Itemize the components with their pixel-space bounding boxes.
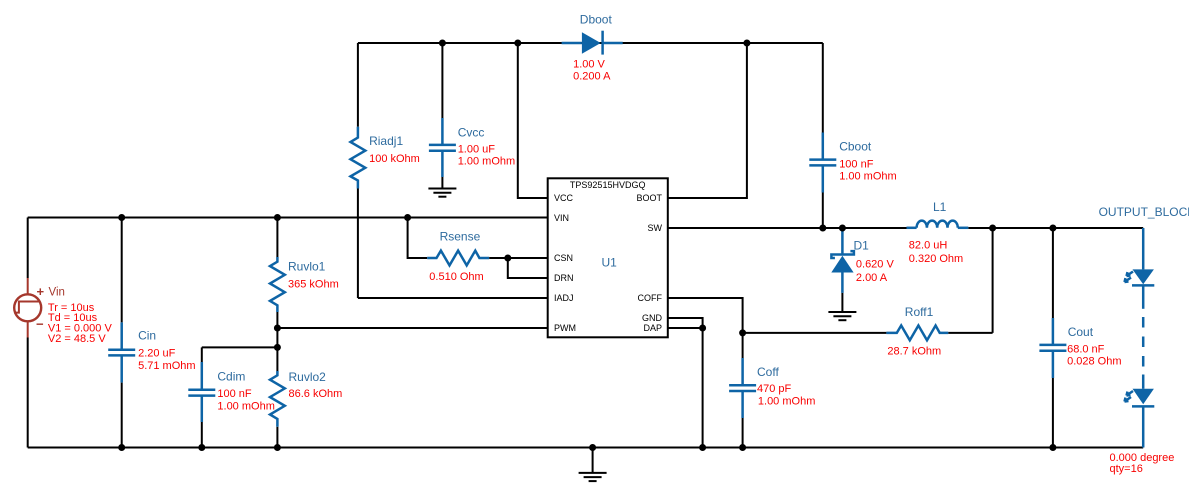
svg-text:U1: U1	[602, 256, 618, 270]
voltage source Vin	[14, 278, 65, 338]
resistor Riadj1	[351, 43, 366, 298]
svg-text:qty=16: qty=16	[1110, 463, 1143, 475]
ground (main)	[579, 448, 607, 482]
svg-text:Roff1: Roff1	[905, 305, 934, 319]
ground (D1)	[828, 312, 856, 320]
svg-text:GND: GND	[642, 313, 663, 323]
node: SW / Roff1 riser	[989, 225, 996, 232]
svg-text:82.0 uH: 82.0 uH	[909, 240, 948, 252]
svg-text:5.71 mOhm: 5.71 mOhm	[138, 360, 195, 372]
wire: VCC branch	[518, 43, 548, 198]
node: ground rail / Coff	[739, 444, 746, 451]
ground (Cvcc)	[428, 189, 456, 197]
resistor Ruvlo1	[270, 218, 285, 372]
node: COFF / Coff / Roff1	[739, 329, 746, 336]
node: top rail / BOOT	[743, 40, 750, 47]
value Cin	[138, 347, 195, 372]
svg-text:0.510 Ohm: 0.510 Ohm	[429, 271, 483, 283]
wire: Cdim top branch y347.4	[202, 346, 278, 348]
wire: CSN line	[489, 257, 548, 259]
svg-text:PWM: PWM	[554, 323, 576, 333]
value Cboot	[839, 158, 896, 182]
node: PWM / Ruvlo divider	[274, 325, 281, 332]
svg-text:0.200 A: 0.200 A	[573, 71, 611, 83]
svg-text:OUTPUT_BLOCK: OUTPUT_BLOCK	[1099, 205, 1189, 219]
svg-text:100 nF: 100 nF	[839, 158, 874, 170]
svg-text:100 nF: 100 nF	[217, 388, 252, 400]
wire: Rsense drop from VIN rail	[408, 218, 428, 259]
svg-text:100 kOhm: 100 kOhm	[369, 153, 420, 165]
svg-text:BOOT: BOOT	[636, 193, 662, 203]
op-amp U1 (TPS92515HVDGQ)	[548, 178, 668, 337]
value Cdim	[217, 388, 274, 413]
svg-text:Ruvlo2: Ruvlo2	[289, 370, 327, 384]
diode Dboot	[562, 31, 623, 55]
svg-text:V2 = 48.5 V: V2 = 48.5 V	[48, 333, 106, 345]
node: top rail / Cvcc	[439, 40, 446, 47]
svg-text:365 kOhm: 365 kOhm	[288, 278, 339, 290]
diode D1 (schottky)	[831, 228, 854, 312]
svg-text:2.20 uF: 2.20 uF	[138, 347, 176, 359]
node: top rail / VCC	[514, 40, 521, 47]
svg-text:Dboot: Dboot	[580, 12, 613, 26]
svg-text:Cout: Cout	[1068, 325, 1094, 339]
wire: BOOT branch	[668, 43, 747, 198]
svg-text:Coff: Coff	[757, 365, 779, 379]
node: Cdim tap	[274, 344, 281, 351]
svg-text:+: +	[37, 284, 45, 299]
svg-text:1.00 uF: 1.00 uF	[458, 144, 496, 156]
svg-text:Vin: Vin	[49, 286, 65, 298]
wire: GND/DAP down to ground rail	[702, 328, 704, 448]
svg-text:Cboot: Cboot	[839, 139, 872, 153]
svg-text:−: −	[36, 316, 44, 331]
svg-text:Cdim: Cdim	[217, 369, 245, 383]
node: ground rail / Cdim	[198, 444, 205, 451]
value D1	[856, 259, 895, 284]
capacitor Cvcc	[429, 43, 456, 188]
value L1	[909, 240, 963, 265]
capacitor Cout	[1039, 228, 1066, 448]
node: SW / Cboot	[819, 225, 826, 232]
LED LED2	[1125, 389, 1155, 407]
resistor Ruvlo2	[270, 371, 285, 448]
svg-text:COFF: COFF	[638, 293, 663, 303]
wire: VIN rail y217.5	[28, 217, 548, 219]
svg-text:DRN: DRN	[554, 273, 574, 283]
node: ground rail / Ruvlo2	[274, 444, 281, 451]
svg-text:SW: SW	[648, 223, 663, 233]
node: ground rail / DAP	[699, 444, 706, 451]
svg-text:1.00 mOhm: 1.00 mOhm	[758, 395, 815, 407]
node: SW / D1	[839, 225, 846, 232]
svg-text:Cvcc: Cvcc	[458, 125, 485, 139]
svg-text:86.6 kOhm: 86.6 kOhm	[289, 388, 343, 400]
value Cvcc	[458, 144, 515, 168]
wire: GND stub	[668, 318, 703, 328]
wire: IADJ line y298	[358, 297, 548, 299]
capacitor Cdim	[188, 347, 215, 447]
wire: LED string bottom	[1142, 406, 1145, 447]
value Dboot	[573, 59, 611, 83]
svg-text:1.00 mOhm: 1.00 mOhm	[458, 155, 515, 167]
svg-text:1.00 mOhm: 1.00 mOhm	[217, 401, 274, 413]
value output block	[1110, 452, 1175, 475]
svg-text:Riadj1: Riadj1	[369, 134, 403, 148]
capacitor Cboot	[809, 43, 836, 228]
wire: PWM line y328	[277, 327, 547, 329]
node: GND-DAP junction	[699, 325, 706, 332]
svg-text:0.320 Ohm: 0.320 Ohm	[909, 253, 963, 265]
wire: DRN branch	[508, 258, 548, 278]
svg-text:Rsense: Rsense	[440, 229, 481, 243]
svg-text:IADJ: IADJ	[554, 293, 574, 303]
svg-text:470 pF: 470 pF	[757, 383, 792, 395]
node: ground rail / Cin	[118, 444, 125, 451]
svg-text:28.7 kOhm: 28.7 kOhm	[887, 345, 941, 357]
wire: LED string dashed middle	[1142, 285, 1145, 388]
value Coff	[757, 383, 815, 407]
wire: top rail y43	[358, 42, 823, 44]
svg-text:2.00 A: 2.00 A	[856, 272, 888, 284]
wire: COFF branch	[668, 298, 743, 333]
capacitor Cin	[108, 218, 135, 448]
node: SW / Cout	[1049, 225, 1056, 232]
svg-text:1.00 mOhm: 1.00 mOhm	[839, 171, 896, 183]
wire: LED string solid top	[1142, 228, 1145, 269]
wire: left input rail x27.7	[27, 218, 29, 448]
resistor Rsense	[427, 251, 489, 266]
node: VIN rail / Ruvlo1	[274, 214, 281, 221]
LED LED1	[1125, 269, 1155, 285]
wire: Roff1 riser to SW	[992, 228, 994, 333]
svg-text:Cin: Cin	[138, 329, 156, 343]
svg-text:0.028 Ohm: 0.028 Ohm	[1067, 356, 1121, 368]
svg-text:VIN: VIN	[554, 213, 569, 223]
wire: SW rail y228	[668, 227, 1143, 229]
svg-text:VCC: VCC	[554, 193, 574, 203]
svg-text:1.00 V: 1.00 V	[573, 59, 605, 71]
svg-text:68.0 nF: 68.0 nF	[1067, 343, 1105, 355]
wire: bottom ground rail y447.5	[28, 447, 1144, 449]
node: VIN rail / Rsense	[404, 214, 411, 221]
svg-text:0.000 degree: 0.000 degree	[1110, 452, 1175, 464]
svg-text:D1: D1	[854, 239, 870, 253]
resistor Roff1	[886, 326, 948, 341]
svg-text:CSN: CSN	[554, 253, 573, 263]
wire: Roff1 row y332.9	[743, 332, 993, 334]
inductor L1	[907, 221, 969, 228]
svg-text:L1: L1	[933, 200, 947, 214]
svg-text:Ruvlo1: Ruvlo1	[288, 260, 326, 274]
svg-text:TPS92515HVDGQ: TPS92515HVDGQ	[570, 180, 646, 190]
wire: DAP stub	[668, 327, 703, 329]
svg-text:0.620 V: 0.620 V	[856, 259, 895, 271]
node: VIN rail / Cin	[118, 214, 125, 221]
node: ground rail / Cout	[1049, 444, 1056, 451]
svg-text:DAP: DAP	[643, 323, 662, 333]
value Cout	[1067, 343, 1121, 367]
Vin parameter values	[48, 302, 113, 345]
node: ground rail / main ground	[589, 444, 596, 451]
node: CSN / DRN	[504, 255, 511, 262]
capacitor Coff	[729, 333, 756, 448]
